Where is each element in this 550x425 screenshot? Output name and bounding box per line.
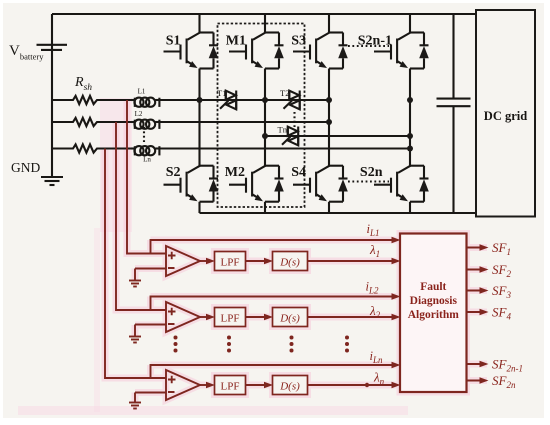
- svg-text:DC grid: DC grid: [484, 109, 527, 123]
- wire sense tap phase1: [127, 100, 166, 254]
- wire minus input C: [135, 393, 166, 403]
- pink band bottom: [18, 406, 408, 415]
- ground comparator B: [129, 337, 141, 343]
- leg 4 vertical: [409, 14, 411, 213]
- arrow SF3: [480, 287, 489, 294]
- arrow lambda n into block: [392, 382, 401, 389]
- svg-text:D(s): D(s): [279, 381, 300, 393]
- inductor Ln: [131, 146, 160, 155]
- transistor M1: [229, 33, 284, 69]
- ground GND: [41, 177, 63, 185]
- op-amp comparator C: [166, 370, 200, 400]
- node leg3-L2: [326, 119, 332, 125]
- svg-text:T1: T1: [217, 88, 226, 98]
- arrow into LPF B: [206, 314, 215, 321]
- svg-text:T2: T2: [280, 88, 289, 98]
- wire branch iL2: [151, 297, 399, 311]
- arrow iL2 into block: [392, 293, 401, 300]
- dotted continuation L2..Ln: [143, 127, 145, 143]
- transistor S2: [164, 166, 219, 202]
- op-amp comparator B: [166, 302, 200, 332]
- node leg4-Ln: [407, 146, 413, 152]
- arrow into D(s) A: [264, 258, 273, 265]
- resistor R_sh phase2: [52, 118, 131, 126]
- wire LPF A to D(s) A: [246, 260, 271, 262]
- battery V_battery: [37, 45, 68, 50]
- block LPF A: [215, 252, 246, 271]
- wire opamp C to LPF: [200, 384, 212, 386]
- svg-text:Tn: Tn: [278, 125, 288, 135]
- dotted continuation top gates: [348, 45, 389, 47]
- resistor R_sh phase1: [52, 96, 131, 104]
- transistor S4: [293, 166, 348, 202]
- arrow SF2n: [480, 377, 489, 384]
- transistor S3: [293, 33, 348, 69]
- block Fault Diagnosis Algorithm: [400, 234, 467, 393]
- op-amp comparator A: [166, 246, 200, 276]
- block D(s) B: [273, 308, 308, 327]
- node lambda n: [365, 383, 369, 387]
- triac Tn: [282, 127, 298, 146]
- svg-text:Ln: Ln: [143, 156, 151, 164]
- dashed box redundant leg: [218, 24, 305, 208]
- node leg4-Tn: [407, 133, 413, 139]
- svg-text:D(s): D(s): [279, 257, 300, 269]
- wire lambda2: [308, 316, 399, 318]
- svg-text:L2: L2: [135, 110, 143, 118]
- arrow SF4: [480, 309, 489, 316]
- arrow into LPF A: [206, 258, 215, 265]
- svg-text:LPF: LPF: [221, 313, 240, 325]
- wire SF4: [467, 311, 486, 313]
- svg-text:M2: M2: [225, 165, 245, 180]
- wire minus input B: [135, 325, 166, 337]
- svg-text:L1: L1: [138, 88, 146, 96]
- node leg3-row1: [326, 97, 332, 103]
- transistor S1: [164, 33, 219, 69]
- wire row n: [160, 147, 410, 149]
- svg-text:S2n: S2n: [360, 165, 383, 180]
- svg-text:LPF: LPF: [221, 257, 240, 269]
- wire SF2: [467, 269, 486, 271]
- vertical ellipsis columns: [174, 336, 350, 353]
- wire SF1: [467, 247, 486, 249]
- svg-text:GND: GND: [11, 160, 40, 175]
- transistor M2: [229, 166, 284, 202]
- svg-text:S2: S2: [166, 165, 181, 180]
- wire LPF B to D(s) B: [246, 316, 271, 318]
- node leg1-L1: [197, 97, 203, 103]
- ground comparator C: [129, 403, 141, 409]
- ground comparator A: [129, 281, 141, 287]
- triac T1: [220, 91, 236, 110]
- block D(s) C: [273, 376, 308, 395]
- arrow into LPF C: [206, 382, 215, 389]
- block D(s) A: [273, 252, 308, 271]
- wire branch iLn: [151, 365, 399, 378]
- svg-text:S1: S1: [166, 34, 181, 49]
- maroon glow underlay: [105, 100, 487, 402]
- node leg4-row1: [407, 97, 413, 103]
- wire lambda1: [308, 260, 399, 262]
- wire LPF C to D(s) C: [246, 384, 271, 386]
- wire sense tap phase2: [116, 122, 166, 310]
- leg 1 vertical: [198, 14, 200, 213]
- wire minus input A: [135, 269, 166, 281]
- pink band left margin: [94, 228, 100, 412]
- svg-text:M1: M1: [226, 34, 246, 49]
- arrow into D(s) B: [264, 314, 273, 321]
- svg-text:S3: S3: [291, 34, 306, 49]
- node leg2-row1: [262, 97, 268, 103]
- wire SF2n: [467, 380, 486, 382]
- svg-text:LPF: LPF: [221, 381, 240, 393]
- inductor L1: [131, 98, 160, 107]
- leg 2 vertical: [264, 14, 266, 213]
- block LPF C: [215, 376, 246, 395]
- dotted continuation T2..Tn: [293, 112, 295, 130]
- transistor S2n: [374, 166, 429, 202]
- transistor S2n-1: [374, 33, 429, 69]
- wire SF3: [467, 290, 486, 292]
- wire sense tap phase n: [105, 149, 166, 379]
- block LPF B: [215, 308, 246, 327]
- wire battery top stub: [51, 14, 53, 177]
- wire lambda n: [308, 384, 399, 386]
- svg-text:D(s): D(s): [279, 313, 300, 325]
- arrow into D(s) C: [264, 382, 273, 389]
- wire top rail: [52, 13, 476, 15]
- capacitor DC link: [437, 14, 471, 213]
- arrow lambda2 into block: [392, 314, 401, 321]
- arrow iL1 into block: [392, 237, 401, 244]
- resistor R_sh phase n: [52, 144, 131, 152]
- DC grid block: [476, 10, 535, 217]
- arrow SF1: [480, 244, 489, 251]
- pink band behind sensing taps: [100, 98, 132, 232]
- wire opamp B to LPF: [200, 316, 212, 318]
- triac T2: [284, 91, 300, 110]
- arrow SF2n-1: [480, 361, 489, 368]
- dotted continuation bottom gates: [348, 180, 389, 182]
- wire bottom rail: [200, 212, 477, 214]
- svg-text:S4: S4: [291, 165, 306, 180]
- wire row1: [160, 99, 329, 101]
- wire triac row Tn: [265, 135, 410, 137]
- arrow SF2: [480, 266, 489, 273]
- inductor L2: [131, 120, 160, 129]
- wire opamp A to LPF: [200, 260, 212, 262]
- wire branch iL1: [151, 240, 399, 254]
- arrow iLn into block: [392, 362, 401, 369]
- wire row2: [160, 121, 329, 123]
- wire SF2n-1: [467, 363, 486, 365]
- node leg2-Tn: [262, 133, 268, 139]
- arrow lambda1 into block: [392, 258, 401, 265]
- leg 3 vertical: [328, 14, 330, 213]
